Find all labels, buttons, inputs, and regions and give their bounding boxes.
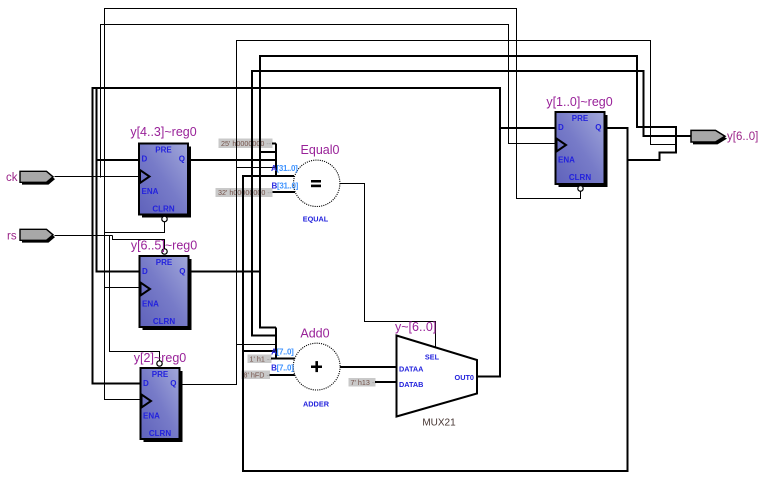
- wire rs to y[4..3] CLRN: [105, 222, 165, 233]
- svg-text:EQUAL: EQUAL: [303, 215, 329, 224]
- wire Equal0 output to MUX21 SEL: [340, 184, 436, 348]
- wire ck down branch to y[6..5] and y[2] clocks: [105, 178, 141, 400]
- svg-text:rs: rs: [7, 231, 17, 243]
- input pin rs: [7, 229, 55, 242]
- wire y[6..5] Q to vertical: [189, 271, 261, 273]
- wire Add0 output to MUX21 DATAA: [340, 366, 397, 368]
- svg-text:DATAB: DATAB: [399, 380, 423, 389]
- svg-text:CLRN: CLRN: [153, 317, 175, 326]
- svg-text:CLRN: CLRN: [569, 173, 591, 182]
- svg-text:B[7..0]: B[7..0]: [271, 364, 294, 373]
- svg-text:ENA: ENA: [142, 187, 159, 196]
- register y[1..0]~reg0: [546, 95, 612, 191]
- svg-text:Q: Q: [179, 267, 185, 276]
- svg-text:A[7..0]: A[7..0]: [271, 348, 294, 357]
- wire constant 25'h rung into Equal0 A bus: [272, 143, 276, 145]
- svg-text:y[4..3]~reg0: y[4..3]~reg0: [130, 125, 196, 139]
- svg-text:ADDER: ADDER: [303, 400, 330, 409]
- wire constant 8'hFD into Add0 B input: [270, 374, 296, 376]
- wire y[4..3] Q into Equal0 A bus: [188, 159, 276, 161]
- svg-text:ck: ck: [6, 172, 18, 184]
- wire constant 7'h13 into MUX21 DATAB: [375, 381, 397, 383]
- svg-text:y[2]~reg0: y[2]~reg0: [134, 351, 187, 365]
- svg-text:7' h13 --: 7' h13 --: [351, 378, 378, 387]
- wire y[1..0] net: Q descent, bottom rail y=470, riser to Equal0 A entry: [243, 128, 628, 471]
- svg-text:SEL: SEL: [425, 353, 440, 362]
- svg-text:PRE: PRE: [572, 114, 589, 123]
- svg-text:A[31..0]: A[31..0]: [271, 164, 298, 173]
- wire mux net branch vertical to y[6..5] D: [97, 88, 141, 272]
- wire y[2] rung into Equal0 A bus: [237, 167, 277, 169]
- wire y[1..0] rung into Add0 A bus: [243, 350, 276, 352]
- svg-text:y[6..0]: y[6..0]: [727, 131, 758, 143]
- op Equal0 comparator: [271, 143, 340, 224]
- svg-text:D: D: [143, 379, 149, 388]
- wire rs pin stub: [55, 235, 113, 237]
- constant 25'h0000000: [219, 139, 273, 148]
- svg-text:PRE: PRE: [155, 146, 172, 155]
- wire y[2] net: Q riser, top rail y=40, drop to output bus rung: [180, 41, 677, 385]
- constant 7'h13: [348, 378, 377, 387]
- svg-text:Q: Q: [179, 155, 185, 164]
- svg-text:1' h1 --: 1' h1 --: [250, 354, 273, 363]
- wire Equal0 A bus vertical: [275, 144, 277, 177]
- wire constant 32'h into Equal0 B input: [273, 191, 296, 193]
- svg-text:ENA: ENA: [558, 156, 575, 165]
- register y[2]~reg0: [134, 351, 187, 442]
- svg-text:DATAA: DATAA: [399, 365, 424, 374]
- svg-text:OUT0: OUT0: [455, 373, 474, 382]
- op Add0 adder: [271, 327, 340, 409]
- wire y[6..5] net: vertical, top rail y=56, drop to output bus rung: [260, 56, 677, 328]
- input pin ck: [6, 171, 55, 184]
- wire output bus vertical and pin feed: [676, 126, 692, 153]
- svg-text:32' h00000000 --: 32' h00000000 --: [218, 188, 273, 197]
- constant 8'hFD: [241, 370, 272, 379]
- wire ck net: pin riser, top rail y=24, drop to y[1..0] clock: [101, 25, 556, 178]
- svg-text:25' h0000000 --: 25' h0000000 --: [221, 139, 272, 148]
- wire rs branch to y[6..5] PRE bubble: [113, 236, 165, 250]
- svg-text:y[6..5]~reg0: y[6..5]~reg0: [131, 239, 197, 253]
- svg-text:Equal0: Equal0: [301, 143, 340, 157]
- svg-text:y[1..0]~reg0: y[1..0]~reg0: [546, 95, 612, 109]
- output pin y[6..0]: [691, 130, 758, 144]
- wire y[4..3] net: vertical, top rail y=71, drop to output bus rung: [252, 71, 677, 336]
- svg-text:D: D: [142, 267, 148, 276]
- wire ck pin to y[4..3] clock: [55, 176, 140, 178]
- wire rs down branch to y[2] PRE bubble: [110, 236, 160, 362]
- constant 32'h00000000: [216, 188, 273, 197]
- wire MUX21 OUT0 riser, top rail y=88, drop to register D inputs: [93, 88, 501, 384]
- svg-text:Q: Q: [170, 379, 176, 388]
- wire mux net branch to y[1..0] D: [500, 127, 556, 129]
- wire Add0 A bus vertical with entry: [271, 328, 295, 359]
- mux MUX21: [395, 320, 477, 429]
- svg-text:PRE: PRE: [156, 258, 173, 267]
- svg-text:y~[6..0]: y~[6..0]: [395, 320, 436, 334]
- wire y[6..5] rung into Equal0 A bus: [260, 151, 276, 153]
- constant 1'h1: [247, 354, 272, 363]
- wire rs net: pin riser, top rail y=8, drop to y[1..0] CLRN: [105, 9, 581, 236]
- svg-text:MUX21: MUX21: [422, 418, 456, 429]
- svg-text:PRE: PRE: [152, 370, 169, 379]
- svg-text:ENA: ENA: [143, 412, 160, 421]
- wire y[2] rung into Add0 A bus: [237, 344, 277, 346]
- svg-text:CLRN: CLRN: [149, 429, 171, 438]
- wire y[1..0] step branch to output bus rung: [628, 153, 678, 161]
- svg-text:8' hFD --: 8' hFD --: [244, 370, 272, 379]
- svg-text:CLRN: CLRN: [152, 205, 174, 214]
- svg-text:D: D: [558, 123, 564, 132]
- register y[6..5]~reg0: [131, 239, 197, 331]
- svg-text:Add0: Add0: [300, 327, 329, 341]
- register y[4..3]~reg0: [130, 125, 196, 222]
- svg-text:Q: Q: [595, 123, 601, 132]
- svg-text:ENA: ENA: [142, 300, 159, 309]
- svg-text:D: D: [142, 155, 148, 164]
- wire mux net branch to y[4..3] D: [97, 159, 141, 161]
- svg-text:B[31..0]: B[31..0]: [271, 182, 298, 191]
